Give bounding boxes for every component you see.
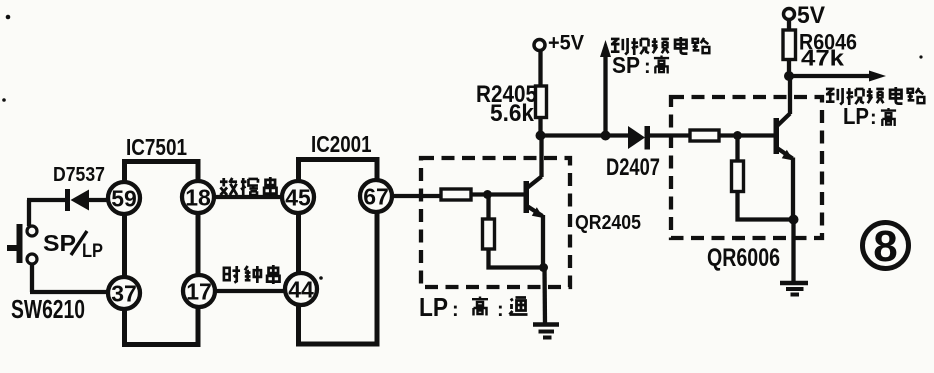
wire resistor to base node	[471, 192, 524, 196]
pin 59	[108, 182, 140, 214]
pin 17	[183, 275, 215, 307]
svg-text:67: 67	[363, 183, 389, 209]
pin 45	[282, 181, 314, 213]
node LP output branch	[784, 71, 794, 81]
svg-text:LP: LP	[843, 103, 869, 129]
svg-text:59: 59	[111, 185, 137, 211]
svg-text:SW6210: SW6210	[11, 296, 85, 324]
svg-text:+5V: +5V	[548, 31, 585, 55]
diode D7537	[65, 189, 89, 211]
figure number 8	[863, 223, 909, 269]
wire switch top to diode	[27, 198, 66, 202]
svg-text:LP: LP	[82, 241, 103, 262]
svg-text:37: 37	[111, 280, 137, 306]
wire 5V to R6046	[787, 20, 791, 31]
label 时钟串 (clock serial)	[224, 265, 280, 284]
wire resistor to base	[719, 133, 774, 137]
wire resistor to bottom rail	[489, 249, 544, 268]
switch plunger	[7, 224, 23, 263]
svg-text::: :	[497, 299, 504, 321]
node base QR2405	[483, 190, 492, 199]
wire diode to pin 59	[89, 198, 109, 202]
5V terminal	[784, 9, 795, 20]
label 到视频电路 (SP)	[611, 37, 709, 55]
svg-text::: :	[870, 107, 877, 129]
ground (QR2405 emitter)	[533, 325, 559, 338]
wire emitter node to ground	[542, 268, 547, 325]
wire diode to QR6006 stage	[650, 133, 691, 137]
label 数据串 (data serial)	[220, 177, 277, 196]
arrow to video circuit SP	[603, 54, 607, 136]
svg-text:IC2001: IC2001	[311, 131, 372, 157]
wire resistor to bottom rail	[738, 192, 794, 220]
svg-text:5V: 5V	[797, 2, 826, 29]
transistor QR6006	[774, 76, 794, 220]
svg-text::: :	[644, 56, 651, 78]
resistor (base-emitter, QR2405 stage)	[483, 219, 495, 249]
node SP output branch	[601, 131, 611, 141]
wire +5V to R2405	[538, 51, 542, 87]
svg-text:18: 18	[185, 184, 211, 210]
node emitter/ground QR6006	[789, 215, 799, 225]
resistor (base-emitter, QR6006 stage)	[732, 161, 744, 192]
node emitter/ground QR2405	[539, 263, 548, 272]
wire node to diode D2407	[541, 133, 630, 137]
arrow to video circuit LP	[789, 74, 871, 78]
wire switch bottom to pin 37	[30, 290, 109, 294]
wire pin 67 to QR2405 base resistor	[392, 194, 441, 198]
pin 37	[108, 277, 140, 309]
IC IC2001	[282, 160, 392, 345]
wire emitter node to ground	[791, 220, 795, 283]
resistor (base, QR2405 stage)	[441, 189, 471, 200]
svg-text:17: 17	[186, 278, 212, 304]
IC IC7501	[108, 162, 215, 345]
svg-text::: :	[452, 299, 459, 321]
svg-text:5.6k: 5.6k	[490, 100, 535, 127]
svg-text:45: 45	[285, 184, 311, 210]
label 到视频电路 (LP)	[826, 87, 924, 105]
svg-text:SP: SP	[612, 52, 640, 78]
wire base node down to resistor	[486, 195, 490, 220]
svg-text:QR2405: QR2405	[575, 211, 641, 234]
pin 67	[360, 180, 392, 212]
transistor QR2405	[524, 136, 544, 268]
node collector/R2405	[536, 131, 546, 141]
node base QR6006	[733, 131, 742, 140]
svg-text:LP: LP	[419, 292, 448, 322]
svg-text:D7537: D7537	[53, 163, 105, 186]
scan specks	[6, 15, 11, 20]
dashed box QR6006 stage	[671, 97, 822, 238]
+5V terminal	[534, 40, 545, 51]
svg-text:IC7501: IC7501	[126, 134, 187, 160]
resistor R6046	[783, 30, 796, 60]
wire R2405 to node	[538, 118, 542, 137]
svg-text:D2407: D2407	[606, 154, 660, 181]
ground (QR6006 emitter)	[780, 283, 808, 295]
switch SW6210	[27, 200, 37, 292]
wire pin 18 to pin 45 (data)	[214, 195, 283, 199]
diode D2407	[628, 126, 650, 150]
svg-text:QR6006: QR6006	[707, 244, 780, 272]
pin 18	[182, 181, 214, 213]
resistor (base, QR6006 stage)	[690, 130, 719, 141]
wire R6046 to node	[787, 60, 791, 77]
svg-text:8: 8	[873, 222, 897, 271]
pin 44	[285, 273, 317, 305]
svg-text:47k: 47k	[801, 46, 845, 71]
svg-text:44: 44	[288, 276, 314, 302]
wire pin 17 to pin 44 (clock)	[215, 289, 287, 293]
dashed box QR2405 stage	[421, 158, 570, 287]
wire base node down to resistor	[735, 136, 739, 162]
resistor R2405	[536, 86, 547, 118]
